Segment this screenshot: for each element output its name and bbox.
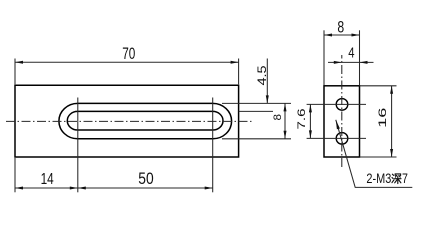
svg-text:8: 8 [337, 18, 344, 37]
svg-text:50: 50 [138, 169, 153, 188]
svg-text:16: 16 [377, 108, 389, 128]
svg-text:7: 7 [402, 171, 408, 186]
svg-text:4.5: 4.5 [255, 65, 269, 85]
svg-text:4: 4 [348, 45, 354, 61]
svg-text:14: 14 [41, 171, 54, 188]
svg-text:7.6: 7.6 [296, 109, 308, 130]
svg-text:70: 70 [122, 45, 135, 63]
svg-text:2-M3: 2-M3 [366, 171, 391, 186]
svg-text:8: 8 [272, 114, 284, 121]
